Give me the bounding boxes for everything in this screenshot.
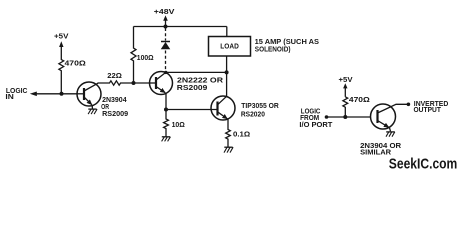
svg-text:100Ω: 100Ω — [137, 55, 154, 62]
svg-text:22Ω: 22Ω — [107, 73, 122, 80]
svg-text:IN: IN — [5, 94, 13, 101]
svg-text:470Ω: 470Ω — [65, 61, 87, 68]
svg-text:I/O PORT: I/O PORT — [299, 122, 333, 129]
svg-text:2N2222 OR: 2N2222 OR — [177, 77, 223, 84]
svg-text:+5V: +5V — [339, 77, 353, 84]
svg-text:+5V: +5V — [54, 33, 69, 40]
svg-text:TIP3055 OR: TIP3055 OR — [241, 103, 278, 110]
svg-text:OUTPUT: OUTPUT — [414, 107, 442, 114]
svg-text:RS2009: RS2009 — [177, 85, 208, 92]
svg-text:OR: OR — [101, 104, 109, 111]
svg-text:10Ω: 10Ω — [172, 122, 186, 129]
svg-text:FROM: FROM — [300, 115, 319, 122]
svg-text:SIMILAR: SIMILAR — [360, 149, 391, 156]
svg-text:0.1Ω: 0.1Ω — [233, 132, 251, 139]
svg-text:+48V: +48V — [154, 9, 175, 16]
svg-text:RS2020: RS2020 — [241, 111, 265, 118]
svg-text:RS2009: RS2009 — [102, 111, 128, 118]
svg-text:15 AMP (SUCH AS: 15 AMP (SUCH AS — [255, 39, 320, 46]
svg-text:SOLENOID): SOLENOID) — [255, 46, 291, 53]
svg-text:470Ω: 470Ω — [349, 97, 370, 104]
svg-text:SeekIC.com: SeekIC.com — [389, 156, 458, 171]
svg-text:LOAD: LOAD — [220, 43, 239, 50]
